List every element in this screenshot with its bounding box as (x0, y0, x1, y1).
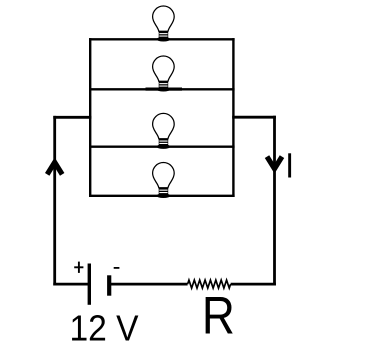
wire: right connector to ladder (232, 116, 276, 119)
wire: left connector to ladder (53, 116, 91, 119)
lamp L4 (bulb on rung 4) (153, 162, 175, 198)
wire: right vertical branch (273, 116, 276, 286)
wire: bottom left segment to battery (53, 283, 89, 286)
current arrow up (left branch) (47, 162, 62, 174)
battery positive plate (long) (88, 264, 91, 305)
wire: parallel ladder left rail (89, 38, 91, 197)
battery + polarity mark (74, 262, 83, 273)
wire: rung 1 (top) (89, 38, 235, 40)
svg-text:R: R (202, 287, 235, 346)
svg-text:12 V: 12 V (70, 308, 140, 349)
battery negative plate (short) (107, 275, 111, 295)
current label I (288, 153, 291, 177)
battery - polarity mark (114, 267, 120, 269)
wire: left vertical branch (53, 116, 56, 286)
wire: rung 2 (89, 88, 235, 90)
lamp L1 (top bulb on rung 1) (153, 6, 175, 42)
lamp L3 (bulb on rung 3) (153, 113, 175, 149)
wire: parallel ladder right rail (232, 38, 234, 197)
lamp L2 (bulb on rung 2) (146, 56, 183, 92)
wire: rung 4 (bottom) (89, 195, 235, 197)
current arrow down (right branch) (267, 157, 282, 169)
wire: bottom right segment resistor to corner (231, 283, 276, 286)
resistor R zigzag (188, 280, 231, 288)
wire: bottom segment battery to resistor (109, 283, 187, 286)
wire: rung 3 (89, 145, 235, 147)
